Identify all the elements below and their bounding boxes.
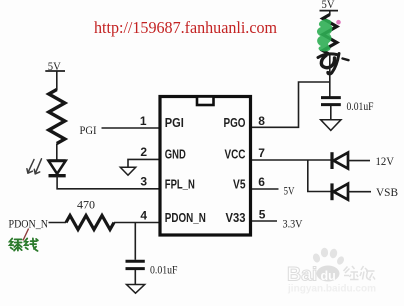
wire PDON_N to R2 — [49, 222, 67, 224]
watermark jingyan-logo glyphs — [344, 266, 376, 280]
svg-text:V33: V33 — [226, 211, 246, 225]
resistor R3 (vertical, highlighted) — [323, 15, 337, 55]
svg-text:du: du — [321, 269, 336, 283]
wire R3 to junction and C2 — [329, 55, 331, 98]
wire pin 6 (V5) — [252, 188, 279, 190]
IC U1 body (8-pin) — [160, 97, 251, 236]
wire D3 to VSB — [348, 191, 371, 193]
svg-text:470: 470 — [77, 198, 95, 212]
svg-text:6: 6 — [258, 175, 265, 189]
wire R1 to LED D1 — [56, 144, 58, 161]
svg-text:3.3V: 3.3V — [283, 216, 303, 230]
svg-text:12V: 12V — [376, 154, 395, 168]
svg-text:PDON_N: PDON_N — [165, 211, 206, 225]
svg-text:GND: GND — [165, 148, 186, 162]
wire D1 to pin 3 — [57, 176, 158, 189]
wire PGI to pin 1 — [102, 127, 159, 129]
LED D1 — [49, 161, 66, 176]
wire pin 7 (VCC) to diodes — [252, 159, 331, 161]
svg-text:Bai: Bai — [287, 264, 317, 286]
LED D1 emission arrows — [27, 159, 42, 174]
resistor R1 (vertical) — [49, 90, 65, 144]
resistor R2 470 (horizontal) — [66, 216, 114, 230]
svg-text:PGO: PGO — [224, 116, 246, 130]
svg-text:5: 5 — [259, 207, 266, 221]
svg-text:0.01uF: 0.01uF — [347, 99, 374, 113]
wire D2 to 12V — [348, 160, 370, 162]
power bar left 5V — [45, 70, 65, 72]
wire junction down to D3 — [308, 160, 331, 192]
wire C2 to ground — [330, 106, 332, 120]
wire junction to C1 — [134, 223, 136, 260]
watermark Baidu logo paw — [312, 248, 346, 282]
diode D3 to VSB — [332, 183, 348, 200]
svg-text:FPL_N: FPL_N — [165, 177, 195, 191]
svg-text:4: 4 — [140, 208, 147, 222]
ground (pin 2) — [120, 167, 135, 175]
svg-text:V5: V5 — [233, 177, 246, 191]
svg-text:jingyan.baidu.com: jingyan.baidu.com — [287, 284, 376, 295]
wire pin 5 (V33) — [252, 220, 277, 222]
ground (C2) — [321, 120, 341, 131]
green highlighter mark on R3 — [317, 19, 332, 51]
wire R2 to pin 4 — [114, 222, 159, 224]
note 绿线 (green wire) drawn glyphs — [10, 238, 38, 251]
svg-text:8: 8 — [258, 114, 265, 128]
svg-text:PDON_N: PDON_N — [9, 216, 49, 230]
diode D2 to 12V — [332, 152, 348, 169]
wire pin 8 (PGO) — [252, 82, 330, 127]
svg-text:0.01uF: 0.01uF — [150, 263, 178, 277]
pink dot annotation — [336, 20, 341, 25]
svg-text:7: 7 — [258, 146, 265, 160]
svg-text:VSB: VSB — [376, 185, 398, 199]
svg-text:5V: 5V — [322, 0, 336, 11]
svg-text:PGI: PGI — [165, 116, 184, 130]
power bar top right — [320, 10, 339, 12]
svg-text:1: 1 — [140, 114, 147, 128]
annotation line to green wire note — [23, 229, 29, 241]
handwritten D annotation — [318, 54, 349, 74]
wire bar to R3 — [329, 11, 331, 15]
ground (C1) — [127, 285, 145, 294]
svg-text:PGI: PGI — [80, 123, 97, 137]
capacitor C2 — [321, 98, 341, 105]
svg-text:5V: 5V — [284, 183, 295, 197]
svg-text:2: 2 — [140, 145, 147, 159]
U1 notch — [197, 97, 214, 106]
wire C1 to ground — [134, 270, 136, 284]
svg-text:http://159687.fanhuanli.com: http://159687.fanhuanli.com — [94, 18, 277, 37]
svg-text:VCC: VCC — [225, 148, 246, 162]
svg-text:3: 3 — [140, 175, 147, 189]
wire 5V bar to R1 — [56, 71, 58, 90]
wire pin 2 to ground — [128, 159, 159, 167]
capacitor C1 — [126, 261, 145, 268]
